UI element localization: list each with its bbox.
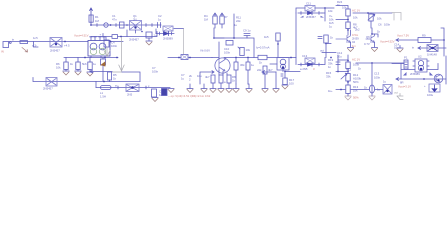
svg-text:2k2: 2k2 (355, 28, 360, 32)
svg-text:Vout=3.1V: Vout=3.1V (398, 85, 411, 89)
wire lower left rail (64, 57, 118, 59)
svg-text:out: out (394, 91, 398, 95)
svg-text:1k: 1k (377, 30, 381, 34)
svg-text:1u: 1u (251, 63, 255, 67)
label triangles (300, 16, 324, 18)
ground arrow input (22, 48, 28, 53)
resistor R30 (263, 66, 267, 74)
transistor Q5 (336, 30, 351, 47)
node dots (337, 71, 339, 73)
svg-text:36k: 36k (240, 63, 245, 67)
ground (75, 71, 81, 75)
svg-text:1k: 1k (364, 86, 368, 90)
pot P1 (368, 13, 375, 28)
node dot (120, 36, 122, 38)
resistor R13 (238, 47, 244, 56)
svg-text:100n: 100n (374, 76, 381, 80)
resistor R21 (346, 22, 350, 29)
svg-text:3: 3 (313, 67, 315, 71)
diode D3 box (126, 84, 139, 92)
wire feed + (102, 34, 104, 37)
resistor R23 (346, 62, 350, 69)
resistor R4 (64, 58, 68, 72)
svg-text:Vout=4.52V: Vout=4.52V (380, 40, 395, 44)
diode D6 (298, 63, 322, 66)
capacitor C3 (20, 41, 28, 44)
svg-text:100n: 100n (152, 70, 159, 74)
grounds mid (233, 89, 239, 93)
wire stems under stage2 (200, 71, 214, 84)
wire stub down (34, 42, 39, 48)
svg-text:1k5: 1k5 (264, 35, 269, 39)
grey net line (112, 38, 124, 73)
svg-text:R9: R9 (422, 34, 426, 38)
resistor R14 inline (258, 55, 267, 59)
IC U2 (413, 59, 429, 72)
svg-text:1u: 1u (234, 23, 238, 27)
svg-text:out: out (320, 49, 324, 53)
svg-text:AC 1V: AC 1V (352, 58, 360, 62)
svg-text:2N5089: 2N5089 (163, 37, 173, 41)
transistor Q4 (270, 58, 289, 72)
svg-text:10k: 10k (353, 89, 358, 93)
transistor Q3 (212, 58, 230, 76)
svg-text:1k+: 1k+ (328, 89, 333, 93)
box outline speaker loop (401, 64, 438, 80)
source I1 (369, 85, 374, 94)
right block B rail (337, 55, 339, 71)
wire bottom rail (33, 78, 140, 82)
loop verticals to opamp (296, 13, 326, 58)
svg-text:C6: C6 (378, 23, 382, 27)
svg-text:1M: 1M (204, 18, 209, 22)
triangles (403, 72, 433, 76)
svg-text:10k: 10k (353, 16, 358, 20)
svg-text:50%: 50% (353, 96, 359, 100)
transistor Q7 box (383, 85, 392, 95)
svg-text:1u: 1u (329, 25, 333, 29)
svg-text:U2: U2 (418, 55, 422, 59)
svg-text:1k: 1k (113, 77, 117, 81)
svg-text:10u: 10u (197, 74, 202, 78)
svg-text:Vb 0.6V: Vb 0.6V (200, 49, 210, 53)
grounds q5 q6 (348, 48, 354, 52)
resistor R20 (346, 9, 350, 16)
wire down stems (215, 24, 222, 28)
resistor R3 (104, 40, 109, 47)
wire bottom chain (96, 87, 170, 89)
node VCC arrow top-left (90, 8, 93, 25)
resistor R1 (89, 15, 93, 22)
svg-text:a 2N5: a 2N5 (300, 67, 308, 71)
svg-text:10k: 10k (377, 17, 382, 21)
wire motif1 sides (155, 29, 157, 34)
svg-text:a 3-: a 3- (32, 44, 37, 48)
svg-text:+4.5: +4.5 (64, 44, 70, 48)
wire corner (262, 71, 276, 74)
diode D7 box (427, 45, 438, 52)
grey ground (397, 94, 403, 100)
wire tick (115, 24, 117, 27)
svg-text:1k: 1k (232, 79, 236, 83)
wire out (396, 39, 444, 42)
wire mid stage rail2 (224, 57, 296, 59)
pot P2 (341, 69, 350, 86)
feedback motif 3: capacitor C13 (305, 58, 315, 64)
svg-text:2N5457: 2N5457 (50, 49, 60, 53)
svg-text:5k6: 5k6 (82, 62, 87, 66)
svg-text:100: 100 (289, 82, 294, 86)
svg-text:47n: 47n (112, 18, 117, 22)
svg-text:1m: 1m (352, 44, 357, 48)
inductor L1 (101, 86, 112, 90)
wire stems (190, 83, 229, 89)
svg-text:C11: C11 (306, 2, 311, 6)
vertical out net (441, 28, 444, 56)
svg-text:22k: 22k (257, 68, 262, 72)
svg-text:8R: 8R (400, 81, 404, 85)
svg-text:IN: IN (1, 50, 4, 54)
node dot (64, 41, 66, 43)
svg-text:1k: 1k (259, 61, 263, 65)
ground (187, 89, 193, 93)
svg-text:10k: 10k (342, 6, 347, 10)
svg-text:10k: 10k (246, 48, 251, 52)
node junction dot (90, 24, 92, 26)
svg-text:1u: 1u (154, 34, 158, 38)
svg-text:10k: 10k (56, 66, 61, 70)
svg-text:1u: 1u (158, 18, 162, 22)
cap C15 stem (371, 63, 373, 85)
resistor R25 inline (112, 35, 118, 39)
transistor Q1 box (130, 21, 142, 34)
svg-text:1u: 1u (93, 62, 97, 66)
svg-text:2N5: 2N5 (127, 93, 133, 97)
wire q4 emitter (285, 71, 300, 73)
capacitor C9 (244, 34, 250, 39)
ticks (281, 74, 283, 76)
grey probe arrow (104, 47, 110, 57)
wire tick (96, 24, 98, 27)
wire tick (145, 86, 147, 89)
loop wires (296, 8, 325, 13)
wire top (336, 6, 348, 10)
svg-text:1.5H: 1.5H (100, 95, 106, 99)
svg-text:1N4148: 1N4148 (427, 53, 437, 57)
feedback motif 1: capacitor C5 (163, 26, 173, 31)
wire q3 collector (214, 38, 224, 60)
ground (210, 89, 216, 93)
grounds right (345, 96, 375, 100)
svg-text:C13: C13 (302, 54, 308, 58)
wire main top chain (91, 24, 161, 26)
capacitor C2 (158, 23, 161, 28)
grey net line mid (183, 29, 185, 56)
grey net (392, 13, 401, 21)
resistor R22 inline (418, 38, 431, 43)
svg-text:10k: 10k (328, 9, 333, 13)
resistor R10 (220, 13, 224, 24)
svg-text:2N5457: 2N5457 (306, 15, 316, 19)
ground (152, 98, 158, 102)
capacitor C4 dark (162, 89, 168, 96)
wire branch to bottom chain (95, 82, 97, 88)
node dot (347, 29, 349, 31)
svg-text:100n: 100n (111, 44, 118, 48)
svg-text:2: 2 (189, 78, 191, 82)
svg-text:Q6: Q6 (366, 35, 370, 39)
capacitor C12 (318, 37, 322, 39)
component small (226, 41, 233, 46)
svg-text:Vout 7.5V: Vout 7.5V (397, 34, 409, 38)
transistor Q8 (434, 74, 443, 83)
diode D5 (298, 11, 322, 14)
input jack J1 (3, 42, 11, 48)
ground (168, 89, 174, 93)
svg-text:50%: 50% (353, 80, 359, 84)
transistor Q2 box (50, 38, 62, 48)
svg-text:33k: 33k (326, 75, 331, 79)
ground (87, 72, 93, 76)
wire bottom right rail (336, 89, 383, 91)
svg-text:Ic=0.57mA: Ic=0.57mA (256, 46, 270, 50)
wire corner to lower chain (122, 72, 140, 82)
resistor R18 (324, 35, 328, 43)
wire q5 collector right (372, 28, 378, 37)
ground (218, 89, 224, 93)
resistor R7 (152, 89, 157, 97)
resistor R24 (346, 85, 350, 94)
node dot (126, 24, 128, 26)
wire input (9, 41, 88, 43)
svg-text:AC 1V: AC 1V (352, 9, 360, 13)
svg-text:+: + (424, 84, 426, 88)
ground (226, 89, 232, 93)
svg-text:2N: 2N (133, 18, 137, 22)
svg-text:2N5457: 2N5457 (43, 87, 53, 91)
svg-text:R11: R11 (346, 68, 351, 72)
svg-text:1k: 1k (358, 67, 362, 71)
wire arrow flag left (90, 70, 112, 73)
svg-text:in: in (412, 46, 415, 50)
resistor R26 (108, 72, 112, 82)
lamp V1 (104, 23, 108, 27)
svg-text:100n: 100n (224, 51, 231, 55)
tube U1 box (88, 37, 110, 58)
svg-text:4k7: 4k7 (205, 75, 210, 79)
svg-text:1u: 1u (181, 77, 185, 81)
capacitor C6 (141, 31, 152, 38)
wire to feedback loop (174, 28, 184, 30)
svg-text:2N5457: 2N5457 (129, 38, 139, 42)
ground (282, 85, 288, 89)
wire mid rail (214, 38, 254, 58)
resistor R15 (234, 62, 238, 70)
svg-text:+: + (100, 33, 102, 37)
svg-text:-- op: V(n3)=4.51 I(R4)=2.1m 0: -- op: V(n3)=4.51 I(R4)=2.1m 0.62 (168, 94, 211, 98)
wire stems mid (236, 58, 248, 85)
svg-text:1n: 1n (328, 65, 332, 69)
wire bottom out (396, 78, 446, 81)
svg-text:4k7: 4k7 (268, 68, 273, 72)
svg-text:100n: 100n (384, 23, 391, 27)
resistor R16 (246, 62, 250, 70)
svg-text:R7: R7 (224, 15, 228, 19)
svg-text:2N5089: 2N5089 (410, 72, 420, 76)
wire tick (145, 24, 147, 27)
svg-text:0.7V: 0.7V (364, 42, 370, 46)
ground (201, 89, 207, 93)
resistor R9 (213, 13, 217, 24)
transistor Q6 (366, 34, 375, 47)
diode D2 box (46, 78, 57, 87)
wire out top (353, 12, 392, 14)
capacitor C16 polar (429, 84, 440, 92)
diode D1 (101, 58, 106, 82)
wire stage2 rail (168, 57, 212, 59)
svg-text:100u: 100u (427, 93, 434, 97)
diode D4 (156, 32, 174, 36)
wire tick (117, 86, 119, 89)
wire diode row (418, 47, 446, 50)
resistor R27 (211, 75, 215, 83)
node dot (110, 24, 112, 26)
wire (338, 59, 348, 61)
resistor R29 (227, 75, 231, 83)
wire out mid (356, 62, 404, 64)
svg-text:C9 1u: C9 1u (243, 29, 251, 33)
capacitor C1 (120, 22, 125, 28)
svg-text:P1: P1 (404, 56, 408, 60)
svg-text:1k: 1k (70, 62, 74, 66)
wire tick (151, 24, 153, 27)
feedback motif 2 top: capacitor C11 (305, 6, 315, 12)
ground (63, 71, 69, 75)
svg-text:1M: 1M (95, 19, 100, 23)
resistor R17 (283, 78, 287, 85)
svg-text:1k: 1k (330, 36, 334, 40)
svg-text:1n5: 1n5 (33, 36, 38, 40)
svg-text:a: a (224, 80, 226, 84)
svg-text:Vout=4.51V: Vout=4.51V (74, 34, 89, 38)
svg-text:a-: a- (115, 84, 118, 88)
svg-text:in: in (12, 38, 15, 42)
wire +V rail mid (233, 14, 235, 38)
resistor R6 (88, 58, 92, 73)
svg-text:1u: 1u (383, 80, 387, 84)
wire mid (336, 19, 348, 21)
capacitor C7 (181, 55, 188, 60)
wire right of tube (110, 41, 123, 43)
wire upper loop (91, 37, 127, 41)
resistor R28 (219, 75, 223, 83)
resistor R5 (76, 58, 80, 72)
resistor R12 (276, 33, 280, 58)
ground under C6 (148, 38, 150, 41)
sub loop below Q1 (127, 30, 157, 37)
